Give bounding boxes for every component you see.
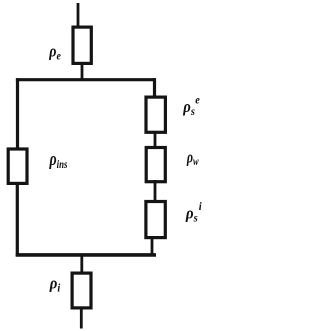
label rho_e [48,42,61,62]
resistor Rs_e [146,97,165,132]
label rho_s^e [182,94,200,118]
wire left branch upper vertical [16,78,19,148]
resistor Rins [8,149,27,183]
wire Rs_i bottom to bottom bus [151,237,154,255]
wire top bus horizontal [16,78,156,81]
label rho_ins [49,148,68,172]
wire right branch top vertical into Rs_e [153,78,156,97]
wire Rs_e to Rw [154,131,157,148]
wire Re bottom to top bus [81,63,84,80]
wire bottom bus to Ri [80,254,83,273]
label rho_s^i [185,201,203,225]
label rho_w [186,148,199,168]
resistor Ri [72,273,91,308]
resistor Rw [146,148,165,182]
resistor Re [73,27,91,63]
label rho_i [49,275,61,295]
wire bottom bus horizontal [16,253,156,257]
wire top lead into Re [77,3,80,28]
resistor Rs_i [146,202,165,238]
wire left branch lower vertical Rins to bottom bus [16,182,19,256]
wire Rw to Rs_i [154,180,157,202]
wire bottom lead out of Ri [80,307,83,329]
